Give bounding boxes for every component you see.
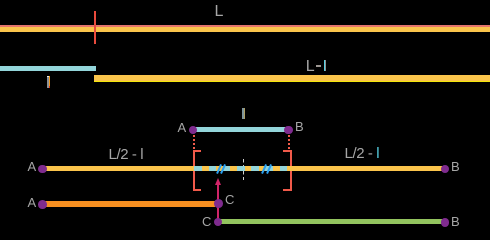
label L-l — [306, 59, 315, 75]
label A (folded row) — [28, 160, 37, 173]
left bracket leader (dashed) — [193, 135, 195, 151]
node A dot (folded) — [38, 165, 47, 174]
cut piece l cyan bar — [0, 66, 96, 71]
rod L yellow bar — [0, 27, 490, 32]
label l (orange/gray) — [47, 76, 49, 78]
node A dot (middle) — [189, 126, 198, 135]
rod L salmon top line — [0, 25, 490, 28]
label L/2 - l (right) — [345, 146, 380, 161]
label C (CB row) — [202, 215, 211, 228]
label B (CB row) — [451, 215, 460, 228]
label B (middle row) — [295, 120, 304, 133]
label L/2 - l (left) — [109, 147, 144, 162]
piece l cyan bar A-B — [194, 127, 287, 132]
remainder rod bright yellow underline — [94, 81, 490, 83]
node B dot (middle) — [284, 126, 293, 135]
cyan overlap dash 5 — [251, 166, 259, 171]
label L — [215, 4, 224, 20]
label A (half AC row) — [28, 196, 37, 209]
node C dot (CB row) — [214, 218, 223, 227]
label l above middle piece — [242, 108, 244, 119]
equal-mark slashes 2 — [261, 164, 267, 174]
midpoint dashed line — [243, 159, 245, 180]
equal-mark slashes 1 — [215, 164, 221, 174]
cyan overlap dash 4 — [237, 166, 245, 171]
label C (AC row) — [225, 193, 234, 206]
red cut tick — [94, 11, 96, 44]
half CB green bar — [220, 219, 443, 225]
folded rod yellow bar — [44, 166, 443, 171]
node C dot (AC row) — [214, 199, 223, 208]
half AC orange bar — [44, 201, 215, 207]
left bracket — [193, 150, 202, 190]
cyan overlap dash 2 — [209, 166, 217, 171]
label B (folded row) — [451, 160, 460, 173]
node B dot (folded) — [441, 165, 450, 174]
node A dot (AC row) — [38, 200, 47, 209]
remainder rod L-l yellow bar — [94, 75, 490, 80]
cyan overlap dash 1 — [194, 166, 202, 171]
cyan overlap dash 6 — [265, 166, 273, 171]
fold arrow head — [215, 178, 221, 185]
cyan overlap dash 7 — [280, 166, 288, 171]
right bracket leader (dashed) — [288, 135, 290, 151]
fold arrow shaft — [217, 184, 219, 223]
cyan overlap dash 3 — [223, 166, 231, 171]
right bracket — [283, 150, 292, 190]
node B dot (CB row) — [441, 218, 450, 227]
label A (middle row) — [178, 121, 187, 134]
